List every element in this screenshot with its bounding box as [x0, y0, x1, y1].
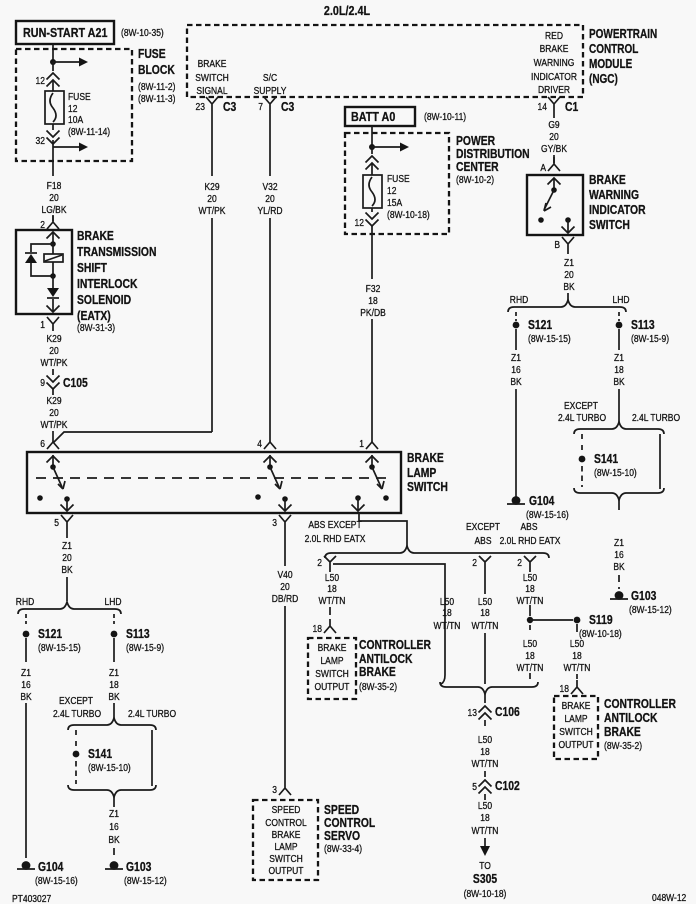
svg-text:POWERTRAIN: POWERTRAIN: [589, 28, 657, 41]
svg-text:2.0L/2.4L: 2.0L/2.4L: [324, 3, 370, 18]
splice S119: [574, 617, 581, 624]
switch arm: [544, 190, 554, 210]
svg-text:WT/TN: WT/TN: [472, 620, 499, 631]
svg-text:G103: G103: [631, 590, 656, 603]
svg-text:18: 18: [480, 812, 489, 823]
svg-text:LAMP: LAMP: [407, 467, 437, 480]
svg-text:CONTROL: CONTROL: [324, 817, 375, 830]
svg-text:12: 12: [387, 185, 396, 196]
svg-text:L50: L50: [478, 734, 492, 745]
wire to splice S141 left: [75, 730, 77, 747]
pin 23 connector C3 of PCM: [206, 97, 218, 111]
svg-text:SUPPLY: SUPPLY: [254, 85, 287, 96]
node solenoid top junction: [50, 241, 56, 247]
wire 2.4L turbo branch right: [659, 434, 661, 489]
svg-text:WT/TN: WT/TN: [472, 758, 499, 769]
svg-text:(8W-15-10): (8W-15-10): [88, 762, 131, 773]
svg-text:C106: C106: [495, 706, 520, 719]
svg-text:BRAKE: BRAKE: [407, 452, 444, 465]
svg-text:F18: F18: [47, 180, 62, 191]
svg-text:FUSE: FUSE: [138, 48, 166, 61]
diode D2 series: [52, 276, 54, 288]
wire Z1 18 BK below S113 right: [618, 329, 620, 350]
svg-text:SWITCH: SWITCH: [269, 853, 302, 864]
svg-text:BK: BK: [108, 691, 120, 702]
splice S121 right: [513, 322, 520, 329]
wire Z1 20 BK left: [66, 529, 68, 538]
svg-text:(8W-35-2): (8W-35-2): [359, 681, 397, 692]
power distribution center dashed box: [345, 133, 449, 234]
svg-text:9: 9: [40, 377, 45, 388]
svg-text:(8W-35-2): (8W-35-2): [604, 740, 642, 751]
brace turbo merge left: [68, 785, 156, 797]
pin 2 connector ABS RHD EATX branch: [524, 556, 536, 568]
connector C105: [52, 369, 54, 395]
ground G104 right: [512, 496, 521, 505]
svg-text:LHD: LHD: [613, 294, 630, 305]
wire below S141 left: [75, 761, 77, 784]
svg-text:1: 1: [40, 319, 45, 330]
svg-text:14: 14: [538, 101, 547, 112]
svg-text:(8W-15-10): (8W-15-10): [594, 467, 637, 478]
svg-text:18: 18: [442, 607, 451, 618]
connector pin 12 of PDC: [371, 208, 373, 234]
svg-text:2: 2: [517, 557, 522, 568]
wire to splice S141 right: [581, 434, 583, 451]
svg-text:18: 18: [560, 683, 569, 694]
svg-text:20: 20: [62, 552, 71, 563]
component speed control servo dashed box: [253, 800, 318, 880]
svg-text:WT/TN: WT/TN: [517, 595, 544, 606]
svg-text:20: 20: [49, 345, 58, 356]
svg-text:(8W-11-14): (8W-11-14): [68, 126, 110, 137]
node switch common contact: [551, 187, 557, 193]
wire arrow to S305: [484, 838, 486, 847]
svg-text:BRAKE: BRAKE: [77, 230, 114, 243]
svg-text:L50: L50: [478, 800, 492, 811]
svg-text:CONTROLLER: CONTROLLER: [359, 639, 432, 652]
pin 5 of brake lamp switch: [61, 515, 73, 529]
svg-text:(8W-10-18): (8W-10-18): [464, 888, 507, 899]
svg-text:1: 1: [359, 438, 364, 449]
svg-text:32: 32: [36, 135, 45, 146]
svg-text:BLOCK: BLOCK: [138, 64, 175, 77]
svg-text:23: 23: [196, 101, 205, 112]
svg-text:(NGC): (NGC): [589, 73, 618, 86]
svg-text:(8W-15-9): (8W-15-9): [126, 642, 164, 653]
pin 2 of solenoid: [47, 215, 59, 229]
svg-text:G103: G103: [126, 861, 151, 874]
wire V32 down to brake lamp switch pin 4: [269, 218, 271, 442]
wire into switch with arrow: [553, 178, 555, 190]
svg-text:Z1: Z1: [109, 808, 119, 819]
wire to splice S121 left: [25, 614, 27, 624]
node output contact pole 3: [355, 495, 361, 501]
svg-text:EXCEPT: EXCEPT: [564, 400, 598, 411]
node junction in PDC: [369, 144, 375, 150]
svg-text:FUSE: FUSE: [68, 91, 91, 102]
node junction ABS branch: [527, 617, 533, 623]
svg-text:SPEED: SPEED: [272, 804, 301, 815]
wire F32 to brake lamp switch pin 1: [371, 319, 373, 442]
svg-text:16: 16: [109, 821, 118, 832]
wire 2.4L turbo branch left: [151, 730, 153, 786]
svg-text:18: 18: [327, 583, 336, 594]
wire Z1 16 BK below S121 right: [515, 329, 517, 350]
svg-text:18: 18: [109, 679, 118, 690]
svg-text:18: 18: [525, 650, 534, 661]
svg-text:(8W-15-12): (8W-15-12): [629, 604, 672, 615]
connector chevrons above fuse in PDC: [366, 156, 379, 163]
svg-text:POWER: POWER: [456, 135, 496, 148]
svg-text:BRAKE: BRAKE: [198, 58, 227, 69]
svg-text:MODULE: MODULE: [589, 58, 633, 71]
svg-text:C1: C1: [565, 101, 579, 114]
svg-text:DRIVER: DRIVER: [538, 84, 570, 95]
svg-text:(8W-33-4): (8W-33-4): [324, 843, 362, 854]
switch pole 3: [371, 455, 373, 467]
svg-text:048W-12: 048W-12: [652, 892, 686, 903]
svg-text:2: 2: [472, 557, 477, 568]
svg-text:Z1: Z1: [614, 537, 624, 548]
mechanical link dashed line: [36, 477, 386, 479]
svg-text:OUTPUT: OUTPUT: [269, 865, 304, 876]
wire below S141 right: [581, 466, 583, 487]
svg-text:S/C: S/C: [263, 72, 277, 83]
wire RUN-START to fuse block: [52, 44, 54, 62]
component controller antilock brake left dashed box: [308, 638, 356, 699]
svg-text:BK: BK: [61, 564, 73, 575]
svg-text:BRAKE: BRAKE: [589, 174, 626, 187]
svg-text:CONTROLLER: CONTROLLER: [604, 698, 677, 711]
connector pin 12 of fuse block: [47, 73, 60, 80]
svg-text:V32: V32: [262, 181, 277, 192]
ground G104 left: [22, 861, 31, 870]
wire F32 out of PDC: [371, 234, 373, 279]
wire L50 dashed to merge: [529, 625, 531, 682]
svg-text:18: 18: [572, 650, 581, 661]
wire L50 right branch of pin 2: [333, 564, 445, 684]
svg-text:ANTILOCK: ANTILOCK: [604, 712, 658, 725]
svg-text:SOLENOID: SOLENOID: [77, 294, 131, 307]
svg-text:A: A: [540, 162, 546, 173]
wire to splice S113 left: [113, 614, 115, 624]
svg-text:DISTRIBUTION: DISTRIBUTION: [456, 148, 530, 161]
svg-text:BRAKE: BRAKE: [318, 642, 347, 653]
svg-text:BK: BK: [20, 691, 32, 702]
svg-text:S141: S141: [594, 453, 619, 466]
splice S141 right: [579, 456, 586, 463]
node switch contact right: [565, 217, 571, 223]
svg-text:WT/PK: WT/PK: [41, 419, 69, 430]
wire BATT to PDC: [371, 126, 373, 147]
pin 3 of brake lamp switch: [279, 515, 291, 529]
pin 7 connector C3 of PCM: [264, 97, 276, 111]
svg-text:BK: BK: [613, 561, 625, 572]
svg-text:INDICATOR: INDICATOR: [589, 204, 646, 217]
svg-text:3: 3: [272, 784, 277, 795]
svg-text:BRAKE: BRAKE: [272, 829, 301, 840]
svg-text:4: 4: [257, 438, 262, 449]
brace RHD LHD right: [508, 300, 626, 312]
fuse 12 15A in PDC: [363, 175, 382, 208]
pin 1 of solenoid: [47, 317, 59, 331]
svg-text:20: 20: [549, 131, 558, 142]
svg-text:(8W-15-15): (8W-15-15): [528, 333, 571, 344]
svg-text:WT/TN: WT/TN: [564, 662, 591, 673]
svg-text:INDICATOR: INDICATOR: [531, 71, 577, 82]
svg-text:L50: L50: [523, 638, 537, 649]
svg-text:WARNING: WARNING: [534, 57, 575, 68]
svg-text:(8W-11-2): (8W-11-2): [138, 81, 175, 92]
wire G9 from PCM pin 14: [553, 111, 555, 118]
svg-text:FUSE: FUSE: [387, 173, 410, 184]
svg-text:WT/TN: WT/TN: [517, 662, 544, 673]
svg-text:K29: K29: [204, 181, 219, 192]
switch pole 1: [52, 455, 54, 467]
svg-text:LG/BK: LG/BK: [41, 204, 67, 215]
svg-text:2.4L TURBO: 2.4L TURBO: [558, 412, 606, 423]
brace turbo split left: [68, 718, 156, 730]
svg-text:(8W-10-18): (8W-10-18): [387, 209, 430, 220]
svg-text:(8W-10-18): (8W-10-18): [579, 628, 622, 639]
svg-text:INTERLOCK: INTERLOCK: [77, 278, 138, 291]
svg-text:(8W-10-2): (8W-10-2): [456, 174, 494, 185]
wire junction to splice S119: [530, 619, 573, 621]
svg-text:OUTPUT: OUTPUT: [315, 681, 350, 692]
svg-text:F32: F32: [366, 283, 381, 294]
wire Z1 16 BK to G103 left: [113, 797, 115, 807]
svg-text:C3: C3: [281, 101, 294, 114]
svg-text:BK: BK: [613, 376, 625, 387]
svg-text:ABS: ABS: [521, 521, 538, 532]
svg-text:EXCEPT: EXCEPT: [59, 695, 93, 706]
svg-text:5: 5: [54, 517, 59, 528]
svg-text:SWITCH: SWITCH: [559, 726, 592, 737]
svg-text:TO: TO: [479, 860, 491, 871]
node unused contact pole 2: [255, 494, 261, 500]
svg-text:BRAKE: BRAKE: [359, 666, 396, 679]
svg-text:LAMP: LAMP: [320, 655, 343, 666]
svg-text:Z1: Z1: [21, 667, 31, 678]
svg-text:(8W-15-16): (8W-15-16): [35, 875, 78, 886]
svg-text:WT/PK: WT/PK: [41, 357, 69, 368]
svg-text:G104: G104: [529, 495, 555, 508]
svg-text:CONTROL: CONTROL: [589, 43, 638, 56]
svg-text:WT/PK: WT/PK: [199, 205, 227, 216]
wire to splice S121 right: [515, 312, 517, 321]
svg-text:18: 18: [313, 623, 322, 634]
svg-text:WARNING: WARNING: [589, 189, 639, 202]
svg-text:TRANSMISSION: TRANSMISSION: [77, 246, 156, 259]
wire G9 to switch pin A: [553, 155, 555, 163]
svg-text:L50: L50: [440, 596, 454, 607]
svg-text:18: 18: [480, 607, 489, 618]
svg-text:SHIFT: SHIFT: [77, 262, 107, 275]
svg-text:20: 20: [564, 269, 573, 280]
brace turbo merge right: [574, 488, 664, 500]
svg-text:BRAKE: BRAKE: [562, 700, 591, 711]
component BATT A0 feed box: [345, 107, 415, 126]
svg-text:18: 18: [480, 746, 489, 757]
svg-text:BATT A0: BATT A0: [351, 109, 396, 124]
switch pole 2: [269, 455, 271, 467]
wire L50 to left CAB: [329, 568, 331, 615]
svg-text:RHD: RHD: [16, 596, 35, 607]
svg-text:S121: S121: [528, 319, 553, 332]
wire Z1 16 BK below S121 left: [25, 638, 27, 662]
svg-text:OUTPUT: OUTPUT: [559, 739, 594, 750]
svg-text:Z1: Z1: [614, 352, 624, 363]
svg-text:RUN-START A21: RUN-START A21: [23, 25, 108, 40]
svg-text:7: 7: [258, 101, 263, 112]
svg-text:EXCEPT: EXCEPT: [466, 521, 500, 532]
svg-text:Z1: Z1: [511, 352, 521, 363]
wire branch arrow right lower: [53, 146, 80, 148]
svg-text:SERVO: SERVO: [324, 830, 360, 843]
component controller antilock brake right dashed box: [554, 696, 598, 759]
svg-text:SIGNAL: SIGNAL: [196, 85, 227, 96]
svg-text:K29: K29: [46, 395, 61, 406]
wire out of switch with arrow: [567, 220, 569, 233]
svg-text:12: 12: [355, 217, 364, 228]
wire Z1 16 BK to G103 right: [618, 500, 620, 510]
svg-text:Z1: Z1: [564, 257, 574, 268]
svg-text:BRAKE: BRAKE: [604, 726, 641, 739]
component brake lamp switch box: [27, 452, 401, 513]
wire to splice S113 right: [618, 312, 620, 321]
component brake warning indicator switch box: [527, 175, 583, 235]
pin A of brake warning indicator switch: [548, 157, 560, 171]
svg-text:CONTROL: CONTROL: [265, 817, 307, 828]
svg-text:SWITCH: SWITCH: [407, 481, 448, 494]
pin 3 of speed control servo: [279, 781, 291, 795]
svg-text:16: 16: [511, 364, 520, 375]
svg-text:12: 12: [36, 75, 45, 86]
svg-text:(EATX): (EATX): [77, 310, 111, 323]
svg-text:BK: BK: [563, 281, 575, 292]
svg-text:S113: S113: [126, 628, 150, 641]
relay coil of solenoid: [52, 244, 54, 276]
wire to connector C106: [484, 694, 486, 703]
svg-text:3: 3: [272, 517, 277, 528]
splice S113 right: [616, 322, 623, 329]
node unused contact pole 1: [37, 495, 43, 501]
svg-text:C3: C3: [223, 101, 236, 114]
svg-text:20: 20: [49, 407, 58, 418]
svg-text:(8W-15-15): (8W-15-15): [38, 642, 81, 653]
svg-text:(8W-10-35): (8W-10-35): [121, 27, 164, 38]
svg-text:WT/TN: WT/TN: [319, 595, 346, 606]
svg-text:PK/DB: PK/DB: [360, 307, 385, 318]
pin 1 of brake lamp switch: [366, 442, 378, 449]
wire V40 to servo: [284, 606, 286, 781]
svg-text:S121: S121: [38, 628, 63, 641]
svg-text:S119: S119: [589, 614, 613, 627]
node junction in fuse block: [50, 59, 56, 65]
component powertrain control module dashed box: [187, 25, 583, 97]
wire K29 from PCM pin 23: [211, 111, 213, 176]
svg-text:16: 16: [614, 549, 623, 560]
ground G103 left: [110, 861, 119, 870]
svg-text:L50: L50: [570, 638, 584, 649]
svg-text:B: B: [554, 239, 560, 250]
component RUN-START A21 feed box: [16, 21, 114, 44]
svg-text:Z1: Z1: [62, 540, 72, 551]
svg-text:S113: S113: [631, 319, 655, 332]
wire to connector C102: [484, 771, 486, 777]
svg-text:(8W-15-9): (8W-15-9): [631, 333, 669, 344]
wire Z1 to RHD LHD split: [567, 251, 569, 301]
wire L50 below S119: [576, 624, 578, 679]
diode D1 clamp: [25, 252, 37, 254]
pin 6 of brake lamp switch: [47, 442, 59, 449]
svg-text:2.4L TURBO: 2.4L TURBO: [128, 708, 176, 719]
svg-text:BRAKE: BRAKE: [540, 43, 569, 54]
svg-text:L50: L50: [478, 596, 492, 607]
svg-text:BK: BK: [510, 376, 522, 387]
wire L50 ABS branch: [529, 568, 531, 616]
svg-text:(8W-15-16): (8W-15-16): [526, 509, 569, 520]
wire V32 from PCM pin 7: [269, 111, 271, 176]
svg-text:V40: V40: [277, 569, 292, 580]
node switch contact left: [538, 217, 544, 223]
svg-text:20: 20: [49, 192, 58, 203]
connector pin 32 of fuse block: [52, 124, 54, 147]
svg-text:C102: C102: [495, 780, 520, 793]
brace ABS merge: [440, 682, 538, 694]
pin B of brake warning indicator switch: [562, 237, 574, 251]
svg-text:2.0L RHD EATX: 2.0L RHD EATX: [500, 535, 561, 546]
svg-text:WT/TN: WT/TN: [434, 620, 461, 631]
node unused contact pole 3: [383, 495, 389, 501]
splice S121 left: [23, 631, 30, 638]
svg-text:RHD: RHD: [510, 294, 529, 305]
svg-text:18: 18: [614, 364, 623, 375]
svg-text:6: 6: [40, 438, 45, 449]
svg-text:2.4L TURBO: 2.4L TURBO: [632, 412, 680, 423]
connector C102: [479, 780, 492, 787]
svg-text:S141: S141: [88, 748, 113, 761]
brace RHD LHD left: [18, 602, 121, 614]
svg-text:ABS EXCEPT: ABS EXCEPT: [308, 519, 362, 530]
ground G103 right: [615, 591, 624, 600]
splice S113 left: [111, 631, 118, 638]
svg-text:S305: S305: [473, 873, 498, 886]
svg-text:2.4L TURBO: 2.4L TURBO: [53, 708, 101, 719]
svg-text:L50: L50: [325, 572, 339, 583]
svg-text:2: 2: [317, 557, 322, 568]
svg-text:YL/RD: YL/RD: [257, 205, 282, 216]
wire K29 from PCM joining pin 6: [53, 432, 212, 443]
svg-text:20: 20: [280, 581, 289, 592]
svg-text:2: 2: [40, 219, 45, 230]
wire from switch pole 3 to split: [359, 513, 407, 547]
wire K29 down to junction: [211, 218, 213, 432]
fuse 12 10A: [45, 91, 64, 124]
svg-text:LAMP: LAMP: [274, 841, 297, 852]
wire branch arrow right: [53, 61, 80, 63]
svg-text:LHD: LHD: [105, 596, 122, 607]
svg-text:G9: G9: [548, 119, 559, 130]
svg-text:PT403027: PT403027: [12, 893, 51, 904]
svg-text:(8W-10-11): (8W-10-11): [424, 111, 466, 122]
pin 18 of right controller antilock brake: [571, 680, 583, 694]
pin 14 connector C1 of PCM: [548, 97, 560, 111]
svg-text:RED: RED: [545, 30, 563, 41]
pin 2 connector except ABS branch: [479, 556, 491, 568]
wire branch arrow right in PDC: [372, 146, 401, 148]
